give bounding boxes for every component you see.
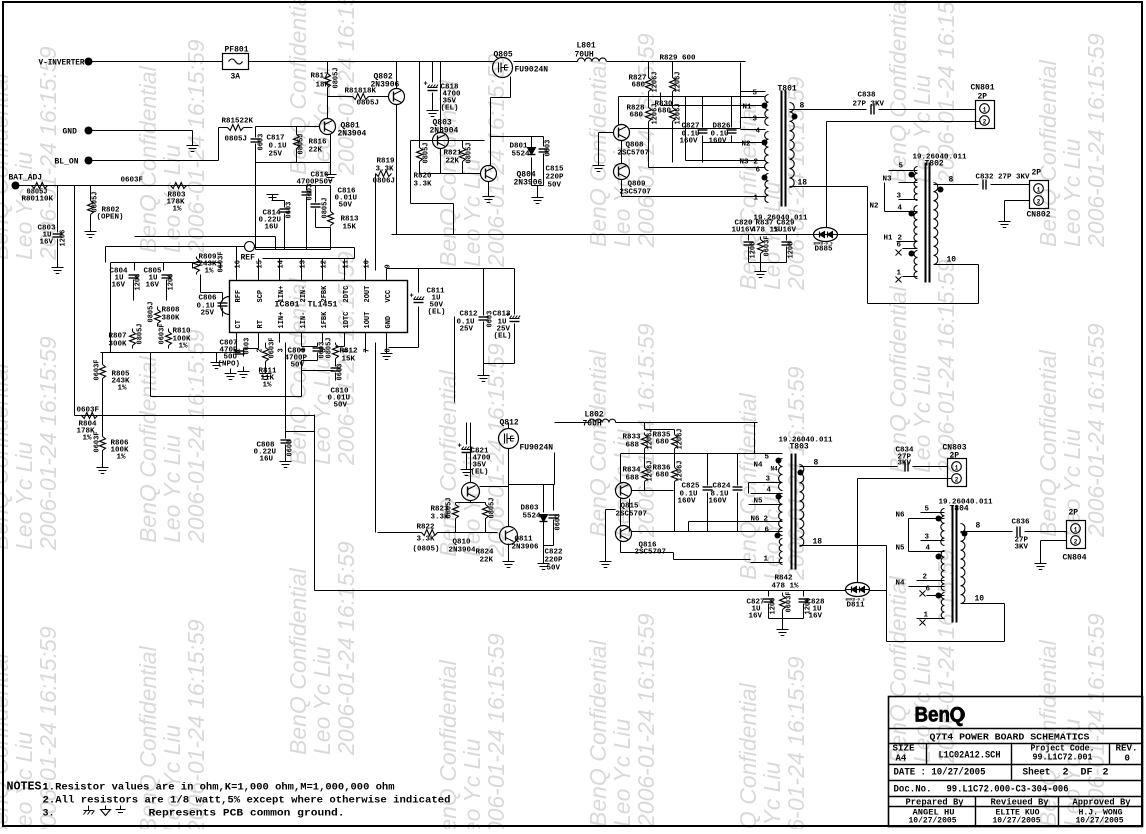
svg-text:1: 1 [754,195,759,203]
svg-text:680: 680 [656,472,670,480]
svg-text:Q7T4 POWER BOARD SCHEMATIC: Q7T4 POWER BOARD SCHEMATICS [930,732,1090,743]
svg-text:25V: 25V [269,151,283,159]
svg-text:0603: 0603 [258,134,266,151]
svg-text:1206J: 1206J [677,428,685,449]
svg-text:50V: 50V [334,402,348,410]
svg-text:0603F: 0603F [269,337,277,358]
svg-text:0805J: 0805J [298,133,306,154]
svg-text:GND: GND [385,316,393,329]
svg-text:Q812: Q812 [500,419,519,428]
svg-text:1: 1 [983,107,987,114]
svg-text:2006-01-24 16:15:59: 2006-01-24 16:15:59 [35,336,61,551]
svg-text:0.1U: 0.1U [269,143,288,151]
svg-text:R810: R810 [173,328,192,336]
svg-text:R833: R833 [623,434,642,442]
svg-text:Q805: Q805 [494,51,513,60]
svg-text:REV.: REV. [1116,744,1138,754]
svg-text:16U: 16U [265,224,279,232]
svg-text:10/27/2005: 10/27/2005 [909,817,957,826]
svg-text:70UH: 70UH [575,51,594,60]
svg-text:14: 14 [278,260,286,268]
svg-text:2: 2 [1103,768,1109,779]
svg-text:1206: 1206 [788,242,796,259]
svg-text:2OUT: 2OUT [364,286,372,303]
svg-text:FU9024N: FU9024N [515,66,549,75]
svg-text:RFF: RFF [235,290,243,303]
svg-text:BenQ Confidential: BenQ Confidential [885,0,911,183]
svg-text:16V: 16V [40,239,54,247]
svg-text:3: 3 [753,116,758,124]
svg-text:R829 600: R829 600 [660,55,697,63]
svg-text:0: 0 [1125,754,1130,764]
svg-text:Q809: Q809 [628,181,647,189]
svg-text:2: 2 [1037,199,1041,206]
svg-text:27P 3KV: 27P 3KV [853,101,885,109]
svg-text:1: 1 [1037,187,1041,194]
svg-text:N4: N4 [896,580,906,588]
svg-text:1DTC: 1DTC [343,312,351,329]
svg-text:RT: RT [257,320,265,328]
svg-text:(EL): (EL) [428,309,446,317]
svg-text:2P: 2P [978,93,988,102]
svg-text:3.: 3. [43,809,55,820]
svg-text:2006-01-24 16:15:59: 2006-01-24 16:15:59 [933,259,959,474]
svg-text:Revieued By: Revieued By [991,797,1049,808]
svg-text:2: 2 [754,159,759,167]
svg-text:5: 5 [753,90,758,98]
svg-text:Leo Yc Liu: Leo Yc Liu [459,739,485,829]
svg-text:D801: D801 [510,143,529,151]
svg-text:BL_ON: BL_ON [55,158,79,167]
svg-text:1206J: 1206J [677,460,685,481]
svg-text:+: + [410,293,414,301]
svg-text:1206: 1206 [60,230,68,247]
svg-text:N5: N5 [896,545,906,553]
svg-text:2N3906: 2N3906 [371,81,400,90]
svg-text:1%: 1% [179,343,189,351]
svg-text:3.3K: 3.3K [414,181,433,189]
svg-text:2: 2 [1063,768,1069,779]
svg-text:2N3904: 2N3904 [338,130,367,139]
svg-text:18K: 18K [316,82,330,90]
svg-text:6: 6 [926,586,931,594]
svg-text:50V: 50V [547,565,561,573]
svg-text:2P: 2P [950,452,960,461]
svg-text:10: 10 [975,595,985,604]
svg-text:1%: 1% [118,385,128,393]
svg-text:380K: 380K [162,315,181,323]
svg-text:2006-01-24 16:15:59: 2006-01-24 16:15:59 [183,39,209,254]
svg-text:CN801: CN801 [971,84,995,93]
svg-text:3.3K: 3.3K [376,166,395,174]
svg-text:6: 6 [897,242,902,250]
svg-text:1206J: 1206J [675,103,683,124]
svg-text:Leo Yc Liu: Leo Yc Liu [11,152,37,260]
svg-text:0805J: 0805J [148,301,156,322]
svg-text:3KV: 3KV [1015,544,1029,552]
svg-text:Leo Yc Liu: Leo Yc Liu [309,357,335,465]
svg-text:R813: R813 [341,216,360,224]
svg-text:R81522K: R81522K [222,118,254,126]
svg-text:3A: 3A [231,73,241,82]
svg-text:Leo Yc Liu: Leo Yc Liu [609,719,635,827]
svg-text:2SC5707: 2SC5707 [620,189,652,197]
svg-text:16U: 16U [260,456,274,464]
svg-text:22K: 22K [446,158,460,166]
svg-text:BAT_ADJ: BAT_ADJ [9,174,43,183]
svg-text:BenQ Confidential: BenQ Confidential [585,349,611,537]
svg-text:BVR8-0.3: BVR8-0.3 [846,599,866,603]
svg-text:D811: D811 [847,602,866,610]
svg-text:2006-01-24 16:15:59: 2006-01-24 16:15:59 [333,541,359,756]
svg-text:Represents PCB common ground.: Represents PCB common ground. [149,808,345,820]
svg-text:4: 4 [756,128,761,136]
svg-text:1206J: 1206J [675,71,683,92]
svg-text:0603: 0603 [244,338,252,355]
svg-text:BenQ Confidential: BenQ Confidential [285,567,311,755]
svg-text:R80110K: R80110K [22,196,54,204]
svg-text:50V: 50V [548,182,562,190]
svg-text:0603F: 0603F [159,323,167,344]
svg-text:2.All resistors are 1/8 watt,5: 2.All resistors are 1/8 watt,5% except w… [43,795,451,807]
svg-text:16V: 16V [112,282,126,290]
svg-text:13: 13 [300,260,308,268]
svg-text:4700P50V: 4700P50V [297,179,334,187]
svg-text:10/27/2005: 10/27/2005 [1076,817,1124,826]
svg-text:1206: 1206 [135,274,143,291]
svg-text:REF: REF [241,254,256,263]
svg-text:BenQ: BenQ [915,704,965,727]
svg-text:(OPEN): (OPEN) [97,214,124,222]
svg-text:1: 1 [1074,527,1078,534]
svg-text:(0805): (0805) [413,546,440,554]
svg-text:0805J: 0805J [326,337,334,358]
svg-text:11: 11 [343,260,351,268]
svg-text:0603F: 0603F [786,591,794,612]
svg-text:R842: R842 [775,575,794,583]
svg-text:VCC: VCC [385,290,393,303]
svg-text:BenQ Confidential: BenQ Confidential [885,285,911,473]
svg-text:2P: 2P [1032,169,1042,178]
svg-text:0603F: 0603F [94,359,102,380]
svg-text:R824: R824 [476,549,495,557]
svg-text:8: 8 [800,102,805,111]
svg-text:7: 7 [364,348,372,352]
svg-text:Leo Yc Liu: Leo Yc Liu [159,435,185,543]
svg-text:N3: N3 [883,176,893,184]
svg-text:15: 15 [257,260,265,268]
svg-text:3: 3 [278,348,286,352]
svg-text:D803: D803 [521,505,540,513]
svg-text:C827: C827 [682,123,700,131]
svg-text:C822: C822 [545,549,564,557]
svg-text:160V: 160V [678,498,697,506]
svg-text:CN804: CN804 [1063,554,1087,563]
svg-text:C838: C838 [858,92,877,100]
svg-text:2FBK: 2FBK [321,285,329,303]
svg-text:15K: 15K [343,224,357,232]
svg-text:3.3K: 3.3K [417,536,436,544]
svg-text:15K: 15K [342,356,356,364]
svg-text:L802: L802 [585,411,604,420]
svg-text:N6: N6 [751,516,761,524]
svg-text:6: 6 [756,167,761,175]
svg-text:0805J: 0805J [489,497,497,518]
svg-text:SIZE: SIZE [893,744,916,754]
svg-text:1IN+: 1IN+ [278,286,286,303]
svg-text:0603: 0603 [555,514,563,531]
svg-text:2006-01-24 16:15:59: 2006-01-24 16:15:59 [483,53,509,268]
svg-text:D885: D885 [815,246,834,254]
svg-text:DATE : 10/27/2005: DATE : 10/27/2005 [894,767,986,779]
svg-text:T802: T802 [925,160,944,169]
svg-text:GND: GND [63,128,78,137]
svg-text:BenQ Confidential: BenQ Confidential [1035,349,1061,537]
svg-text:C806: C806 [199,295,218,303]
svg-text:N1: N1 [743,104,753,112]
svg-text:5524: 5524 [523,513,542,521]
svg-text:C813: C813 [493,311,512,319]
svg-text:50V: 50V [291,362,305,370]
svg-text:V-INVERTER: V-INVERTER [39,59,85,68]
svg-text:A4: A4 [896,754,907,764]
svg-text:2N3906: 2N3906 [514,179,543,188]
svg-text:BVR8-0.3: BVR8-0.3 [814,243,834,247]
svg-text:C832 27P 3KV: C832 27P 3KV [976,174,1031,182]
svg-text:0805J: 0805J [466,142,474,163]
svg-text:1206: 1206 [770,598,778,615]
svg-text:T801: T801 [778,85,797,94]
svg-text:220P: 220P [545,557,564,565]
svg-text:688: 688 [626,442,640,450]
svg-text:0603: 0603 [545,140,553,157]
svg-text:300K: 300K [109,341,128,349]
svg-text:PF801: PF801 [225,46,249,55]
svg-text:R821: R821 [444,150,463,158]
svg-text:0603F: 0603F [77,407,100,415]
svg-text:680: 680 [658,108,672,116]
svg-text:2N3904: 2N3904 [449,547,477,555]
svg-text:+: + [424,81,428,89]
svg-text:0805J: 0805J [333,67,341,88]
svg-text:C817: C817 [267,135,285,143]
svg-text:0603F: 0603F [218,251,226,272]
svg-text:2IN-: 2IN- [300,286,308,303]
svg-text:2006-01-24 16:15:59: 2006-01-24 16:15:59 [633,613,659,828]
svg-text:2SC5707: 2SC5707 [618,150,650,158]
svg-text:0603: 0603 [337,364,345,381]
svg-text:2: 2 [955,477,959,484]
svg-text:Leo Yc Liu: Leo Yc Liu [1059,139,1085,247]
svg-text:BenQ Confidential: BenQ Confidential [135,65,161,253]
svg-text:Leo Yc Liu: Leo Yc Liu [909,365,935,473]
svg-text:16V: 16V [146,282,160,290]
svg-text:(NPO): (NPO) [218,361,241,369]
svg-text:Prepared By: Prepared By [906,797,964,808]
svg-text:2P: 2P [1069,509,1079,518]
svg-text:9: 9 [385,264,393,268]
svg-text:N4: N4 [771,466,779,473]
svg-text:BenQ Confidential: BenQ Confidential [135,355,161,543]
svg-text:R834: R834 [623,467,642,475]
svg-text:0603: 0603 [287,440,295,457]
svg-text:16V: 16V [749,613,763,621]
svg-text:10: 10 [364,260,372,268]
svg-text:R819: R819 [377,158,396,166]
svg-text:Q811: Q811 [515,536,534,544]
svg-text:Leo Yc Liu: Leo Yc Liu [759,762,785,829]
svg-text:N3: N3 [740,159,750,167]
svg-text:L801: L801 [577,42,596,51]
svg-text:1FBK: 1FBK [321,311,329,329]
svg-text:R808: R808 [162,307,181,315]
svg-text:D826: D826 [713,123,732,131]
svg-text:CN802: CN802 [1027,211,1051,220]
svg-text:C824: C824 [713,483,732,491]
svg-text:10: 10 [947,256,957,265]
svg-text:5: 5 [899,163,904,171]
svg-text:N6: N6 [896,512,906,520]
svg-text:1206J: 1206J [652,71,660,92]
svg-text:220P: 220P [546,174,565,182]
svg-text:(EL): (EL) [494,333,512,341]
svg-text:0603F: 0603F [94,431,102,452]
svg-text:0805J: 0805J [357,100,380,108]
svg-text:N2: N2 [870,203,880,211]
svg-text:99.L1C72.001: 99.L1C72.001 [1033,752,1093,763]
svg-text:Approved By: Approved By [1073,797,1131,808]
svg-text:99.L1C72.000-C3-304-006: 99.L1C72.000-C3-304-006 [947,785,1069,796]
svg-text:25V: 25V [460,326,474,334]
svg-text:R816: R816 [309,139,328,147]
svg-text:L1C02A12.SCH: L1C02A12.SCH [939,751,1001,762]
svg-text:2006-01-24 16:15:59: 2006-01-24 16:15:59 [1083,33,1109,248]
svg-text:0805J: 0805J [137,323,145,344]
svg-text:2DTC: 2DTC [343,286,351,303]
svg-text:1U16V: 1U16V [774,227,797,235]
svg-text:(EL): (EL) [441,105,459,113]
svg-text:BenQ Confidential: BenQ Confidential [735,682,761,829]
svg-text:0805J: 0805J [446,497,454,518]
svg-text:50V: 50V [339,202,353,210]
svg-text:Sheet: Sheet [1023,767,1051,779]
svg-text:BenQ Confidential: BenQ Confidential [585,639,611,827]
svg-text:2: 2 [983,119,987,126]
svg-text:8: 8 [385,348,393,352]
svg-text:160V: 160V [680,138,699,146]
svg-text:0805J: 0805J [225,136,248,144]
svg-text:18: 18 [798,179,808,188]
svg-text:1%: 1% [117,454,127,462]
svg-text:SCP: SCP [257,290,265,303]
svg-text:25V: 25V [201,310,215,318]
svg-text:1IN+: 1IN+ [278,312,286,329]
svg-text:2: 2 [764,516,769,524]
svg-text:2006-01-24 16:15:59: 2006-01-24 16:15:59 [783,656,809,829]
svg-text:70UH: 70UH [583,420,602,429]
svg-text:0603F: 0603F [121,177,144,185]
svg-text:2N3904: 2N3904 [430,127,459,136]
svg-text:160V: 160V [709,138,728,146]
svg-text:478 1%: 478 1% [772,583,800,591]
svg-text:+: + [458,443,462,451]
svg-text:1206: 1206 [168,274,176,291]
svg-text:H1: H1 [884,235,894,243]
svg-text:2006-01-24 16:15:59: 2006-01-24 16:15:59 [483,633,509,829]
svg-text:Leo Yc Liu: Leo Yc Liu [11,442,37,550]
svg-text:8: 8 [976,522,981,531]
svg-text:5: 5 [765,454,770,462]
svg-text:FU9024N: FU9024N [520,444,554,453]
svg-text:22K: 22K [309,147,323,155]
svg-text:1OUT: 1OUT [364,312,372,329]
svg-text:3KV: 3KV [898,460,912,468]
svg-text:1: 1 [897,270,902,278]
svg-text:680: 680 [632,82,646,90]
svg-text:C812: C812 [460,311,479,319]
svg-text:0603: 0603 [307,184,315,201]
svg-text:C836: C836 [1012,519,1031,527]
svg-text:5524: 5524 [512,151,531,159]
svg-text:680: 680 [656,439,670,447]
svg-text:0805J: 0805J [423,142,431,163]
svg-text:Leo Yc Liu: Leo Yc Liu [309,647,335,755]
svg-text:12: 12 [321,260,329,268]
svg-text:1%: 1% [83,435,93,443]
svg-text:1IN-: 1IN- [300,312,308,329]
svg-text:R807: R807 [109,333,127,341]
svg-text:R812: R812 [340,348,359,356]
svg-text:16V: 16V [809,613,823,621]
svg-text:1.Resistor values are in ohm,K: 1.Resistor values are in ohm,K=1,000 ohm… [43,782,395,794]
svg-text:0603: 0603 [286,202,294,219]
svg-text:1: 1 [955,465,959,472]
svg-text:8: 8 [814,459,819,468]
svg-text:R822: R822 [417,524,436,532]
svg-text:1%: 1% [263,382,273,390]
svg-text:16: 16 [235,260,243,268]
svg-text:DF: DF [1081,768,1093,779]
svg-text:T803: T803 [790,443,809,452]
svg-text:C815: C815 [546,166,565,174]
svg-text:8: 8 [949,176,954,185]
svg-text:680: 680 [630,112,644,120]
svg-text:22K: 22K [480,557,494,565]
svg-text:0603F: 0603F [764,235,772,256]
svg-text:6: 6 [765,527,770,535]
svg-text:1%: 1% [205,268,215,276]
svg-text:Q810: Q810 [453,539,472,547]
svg-text:2006-01-24 16:15:59: 2006-01-24 16:15:59 [1083,323,1109,538]
svg-text:18: 18 [813,538,823,547]
svg-text:N2: N2 [742,141,752,149]
svg-text:2006-01-24 16:15:59: 2006-01-24 16:15:59 [183,329,209,544]
svg-text:2N3906: 2N3906 [512,544,540,552]
svg-text:160V: 160V [709,498,728,506]
svg-text:2: 2 [1074,539,1078,546]
svg-text:10/27/2005: 10/27/2005 [993,817,1041,826]
svg-text:N4: N4 [754,462,764,470]
svg-text:C825: C825 [682,483,701,491]
svg-text:0805J: 0805J [322,197,330,218]
svg-text:Doc.No.: Doc.No. [894,785,932,796]
svg-text:1%: 1% [173,206,183,214]
svg-text:0805J: 0805J [92,191,100,212]
svg-text:BenQ Confidential: BenQ Confidential [435,369,461,557]
svg-text:Q808: Q808 [626,142,645,150]
svg-text:CT: CT [235,320,243,328]
svg-text:(EL): (EL) [471,469,489,477]
